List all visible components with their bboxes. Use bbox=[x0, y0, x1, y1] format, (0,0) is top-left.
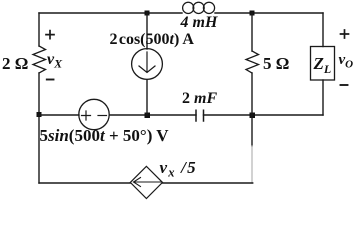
wire ZL branch top (323,13)-(323,45) bbox=[322, 13, 324, 47]
wire current-source branch upper (147,13)-(147,49) bbox=[146, 13, 148, 49]
current source I1 arrow down bbox=[139, 52, 155, 73]
resistor R2 5 ohm zigzag bbox=[246, 51, 259, 73]
capacitor C1 2 mF plates bbox=[196, 110, 204, 121]
wire current-source branch lower (147,79.5)-(147,115) bbox=[146, 80, 148, 116]
wire dependent-branch faint segment (252,146)-(252,183) bbox=[251, 146, 253, 183]
node junction dot middle of current-source branch (147,115) bbox=[145, 113, 151, 119]
label plus of vo bbox=[341, 30, 349, 38]
wire dependent-branch dark segment (252,115)-(252,146) bbox=[251, 115, 253, 146]
label 5 ohm bbox=[263, 54, 289, 74]
wire bottom horizontal right (162.5,183)-(253,183) bbox=[163, 182, 253, 184]
wire top-right horizontal (215,13)-(323,13) bbox=[215, 12, 323, 14]
dependent source D1 diamond bbox=[130, 166, 162, 198]
wire left vertical lower (39,73)-(39,183) bbox=[38, 73, 40, 183]
label plus of vX bbox=[46, 31, 54, 39]
inductor L1 4 mH coil bbox=[183, 2, 194, 13]
node junction dot top of 5 ohm (252,13) bbox=[250, 11, 255, 16]
resistor R1 2 ohm zigzag bbox=[33, 46, 46, 73]
label ZL bbox=[314, 54, 332, 77]
label 5sin(500t+50) V bbox=[40, 126, 169, 146]
label minus of vo bbox=[341, 84, 348, 86]
node junction dot top of current source (147,13) bbox=[145, 11, 150, 16]
wire middle horizontal left (39,115)-(79,115) bbox=[39, 114, 79, 116]
label vX bbox=[47, 51, 62, 72]
label vx/5 bbox=[160, 158, 197, 181]
wire 5-ohm branch upper (252,13)-(252,51) bbox=[251, 13, 253, 51]
label 2 ohm bbox=[2, 54, 28, 74]
wire middle horizontal right of capacitor (203.5,115)-(323,115) bbox=[204, 114, 324, 116]
current source I1 circle bbox=[132, 49, 163, 80]
label vo bbox=[339, 52, 354, 71]
wire left vertical upper (39,13)-(39,46) bbox=[38, 13, 40, 46]
wire top-left horizontal (39,13)-(182,13) bbox=[39, 12, 182, 14]
node junction dot middle of 5-ohm branch (252,115) bbox=[250, 113, 256, 119]
wire ZL branch bottom (323,81)-(323,115) bbox=[322, 80, 324, 115]
wire bottom horizontal left (39,183)-(130,183) bbox=[39, 182, 130, 184]
voltage source V1 5sin(500t+50) circle bbox=[79, 99, 109, 129]
wire 5-ohm branch lower (252,73)-(252,115) bbox=[251, 73, 253, 115]
node junction dot left-middle (39,115) bbox=[37, 112, 42, 117]
voltage source V1 minus sign bbox=[98, 115, 107, 117]
label 4 mH bbox=[181, 14, 218, 32]
wire middle horizontal (109,115)-(196,115) bbox=[109, 114, 196, 116]
dependent source D1 left arrow bbox=[134, 178, 162, 187]
label 2 mF bbox=[182, 90, 217, 108]
label 2cos(500t) A bbox=[110, 31, 194, 49]
voltage source V1 plus sign bbox=[82, 111, 91, 120]
impedance ZL box bbox=[311, 47, 335, 81]
label minus of vX bbox=[47, 79, 54, 81]
